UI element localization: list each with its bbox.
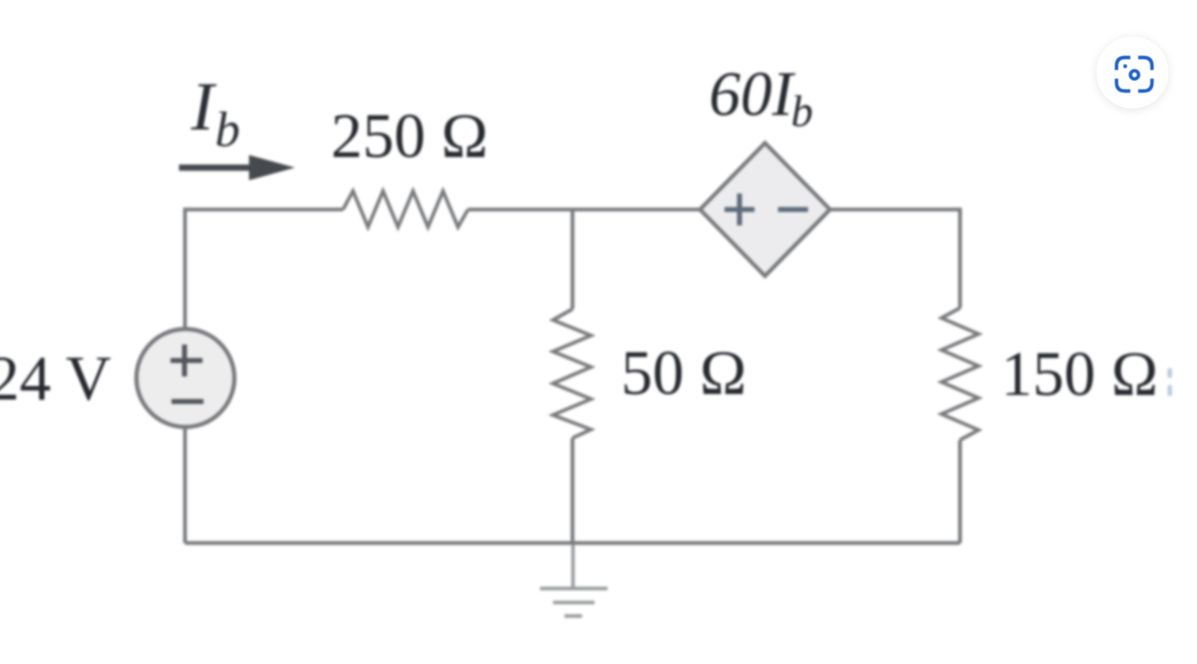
lens button white circle — [1097, 37, 1169, 109]
svg-text:60I: 60I — [709, 59, 796, 129]
resistor 50ohm zigzag — [553, 309, 591, 438]
wire: top middle from 250-ohm to diamond source — [468, 208, 700, 212]
svg-text:50 Ω: 50 Ω — [621, 338, 747, 408]
current arrow Ib — [179, 155, 295, 180]
wire: top right from diamond to right corner down to 150-ohm — [830, 210, 960, 309]
svg-text:b: b — [791, 87, 813, 136]
faint clipped glyph right edge — [1168, 368, 1173, 396]
plus sign inside source — [171, 345, 203, 377]
wire: bottom horizontal — [185, 541, 960, 545]
ground symbol — [540, 545, 608, 616]
svg-text:b: b — [215, 101, 240, 157]
wire: right lower vertical — [958, 440, 962, 543]
minus sign inside source — [172, 399, 204, 404]
svg-text:24 V: 24 V — [0, 344, 111, 414]
svg-text:150 Ω: 150 Ω — [1001, 339, 1158, 409]
voltage source V1 24V circle — [136, 329, 234, 427]
resistor 150ohm zigzag — [942, 308, 979, 440]
wire: top-left from left corner to 250-ohm resistor — [185, 210, 343, 330]
svg-text:I: I — [190, 69, 217, 145]
dependent source U1 diamond 60Ib — [700, 143, 830, 276]
minus sign inside diamond — [778, 207, 808, 212]
wire: middle node down to 50-ohm — [571, 210, 575, 310]
lens camera icon — [1117, 58, 1153, 92]
plus sign inside diamond — [725, 194, 755, 226]
wire: 50-ohm lower lead to bottom wire — [571, 438, 575, 543]
svg-text:250 Ω: 250 Ω — [331, 101, 488, 171]
wire: left lower vertical below source — [183, 427, 187, 543]
resistor R 250ohm zigzag — [343, 191, 468, 227]
